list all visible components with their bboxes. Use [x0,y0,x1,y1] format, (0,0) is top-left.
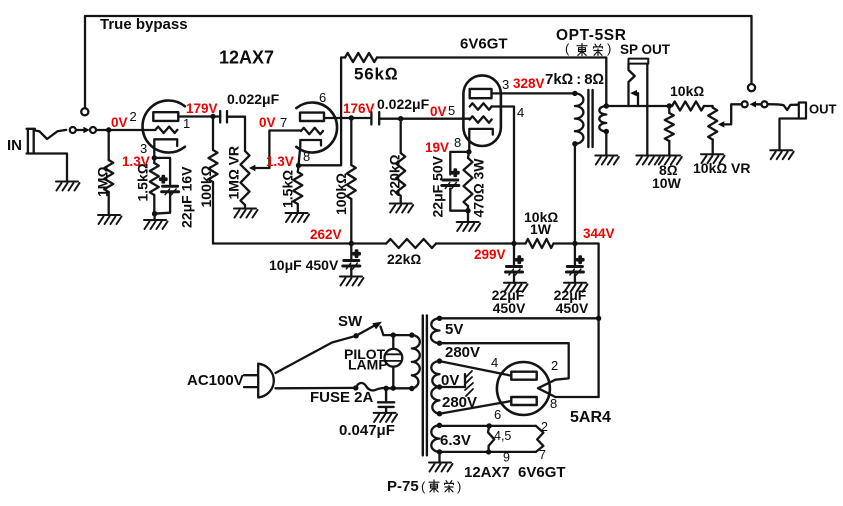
svg-text:220kΩ: 220kΩ [387,154,403,196]
node 0.047uF tap [383,386,388,391]
switch SW blade [356,325,375,336]
svg-text:4: 4 [491,355,498,370]
resistor 470Ohm 3W cathode [467,152,470,158]
V2 cathode (pin8) [469,129,493,152]
node OPT secondary top [604,103,609,108]
svg-text:7kΩ : 8Ω: 7kΩ : 8Ω [545,71,604,88]
svg-text:280V: 280V [442,394,477,411]
resistor 22kOhm dropper [386,239,436,248]
svg-text:0V: 0V [111,115,128,130]
svg-text:LAMP: LAMP [348,357,388,373]
svg-text:22μF 16V: 22μF 16V [179,166,195,228]
svg-text:470Ω 3W: 470Ω 3W [471,158,487,218]
V1b plate (pin6) [300,113,324,121]
transformer PT 6.3V winding [431,425,439,452]
tube V1a 12AX7 first triode envelope [143,101,185,153]
node 299V [511,241,516,246]
node 0V input [106,127,111,132]
svg-text:(: ( [565,41,570,56]
svg-text:6: 6 [494,407,501,422]
ground (1.5k V1b) [286,213,310,222]
resistor 220kOhm grid leak [400,119,402,153]
ground (6.3V) [429,463,453,472]
transformer OPT primary winding [575,93,584,143]
tube V3 5AR4 envelope [497,362,550,415]
svg-text:4,5: 4,5 [494,429,511,443]
tube V2 6V6GT envelope [463,75,501,146]
wire: pin8 to B+ [555,396,598,398]
node cathode bottom [152,211,157,216]
ground (IN jack) [56,182,80,191]
ground (10uF) [340,277,364,286]
node cathode V1a 1.3V [152,155,157,160]
node SW pivot [353,333,358,338]
svg-text:344V: 344V [583,226,615,241]
svg-text:19V: 19V [425,140,449,155]
svg-text:1.5kΩ: 1.5kΩ [135,163,151,201]
svg-text:5: 5 [448,103,455,118]
svg-text:FUSE 2A: FUSE 2A [310,389,374,406]
capacitor 0.022uF coupling 2 [371,112,379,125]
transformer PT HV winding 280-0-280 [431,361,439,414]
capacitor 22uF 450V filter 1 [513,244,515,283]
transformer PT core [423,316,427,456]
ground (OUT jack) [770,150,794,159]
svg-text:): ) [607,41,611,56]
svg-text:6V6GT: 6V6GT [460,36,508,53]
V2 plate (pin3) [470,89,492,98]
svg-text:2: 2 [551,358,558,373]
svg-text:0.022μF: 0.022μF [377,96,430,112]
capacitor 0.022uF coupling 1 [220,111,245,123]
svg-text:450V: 450V [493,300,526,316]
svg-text:100kΩ: 100kΩ [198,165,214,207]
wire: V1b plate to node 176V [324,117,371,119]
jack OUT body [799,103,806,119]
node: bypass switch pole left (open circle) [81,108,88,115]
node 179V [210,114,215,119]
ground (22uF 2) [564,283,588,292]
node heater tap 12AX7 top [487,423,492,428]
V1a grid (pin2) [155,127,177,133]
V3 filament pins 2-8 [538,380,555,397]
plug AC100V [244,364,274,398]
heater bus right chevron 6V6GT [536,426,544,452]
ground (10k VR) [701,154,725,163]
svg-text:179V: 179V [186,101,218,116]
svg-text:8: 8 [454,135,461,150]
svg-text:2: 2 [541,420,548,434]
svg-text:6: 6 [319,90,326,105]
svg-text:6.3V: 6.3V [440,432,471,449]
svg-text:280V: 280V [445,344,480,361]
svg-text:10kΩ: 10kΩ [670,83,704,99]
resistor 1MOhm input [108,130,110,160]
svg-text:6V6GT: 6V6GT [518,464,566,481]
svg-text:P-75: P-75 [387,478,419,495]
wiper of 1M VR to grid V1b [249,165,255,172]
svg-text:328V: 328V [513,76,545,91]
jack IN tip spring [35,130,66,139]
svg-text:IN: IN [7,137,22,154]
svg-text:10μF 450V: 10μF 450V [269,257,339,273]
svg-text:12AX7: 12AX7 [219,48,274,68]
node 176V [349,115,354,120]
wire: fuse to primary bottom [386,387,412,389]
node grid 6V6 [398,116,403,121]
heater bus pinch 12AX7 [488,426,494,452]
svg-text:10kΩ VR: 10kΩ VR [693,160,750,176]
svg-text:22kΩ: 22kΩ [387,251,421,267]
jack SP OUT switching contact arrow [637,93,639,106]
svg-text:1.3V: 1.3V [266,154,294,169]
svg-text:7: 7 [280,115,287,130]
wire: screen to 299V rail [492,107,515,244]
svg-text:+: + [576,252,584,267]
svg-text:(: ( [421,479,426,494]
resistor 1.5kOhm V1b cathode [297,166,300,173]
transformer PT primary winding [412,335,420,388]
V1b cathode (pin8) [299,140,322,166]
svg-text:1MΩ: 1MΩ [95,167,111,197]
node OPT primary top 328V [572,91,577,96]
potentiometer 1MOhm VR volume [244,117,246,151]
node primary bottom [409,386,414,391]
wire: OPT primary bottom to 344V [574,144,576,244]
transformer OPT core [588,90,592,147]
node OPT primary bottom [572,141,577,146]
svg-text:8: 8 [550,396,557,411]
svg-text:): ) [457,479,461,494]
svg-text:0.022μF: 0.022μF [227,91,280,107]
svg-text:7: 7 [539,448,546,462]
svg-text:+: + [452,165,460,180]
svg-text:SW: SW [338,313,363,330]
wire: 5V bottom to 5AR4 pin2 [440,343,569,380]
capacitor 10uF 450V filter [350,244,352,277]
svg-text:5AR4: 5AR4 [570,409,611,426]
V1a cathode (pin3) [154,139,177,158]
wire: plug bottom to fuse [276,387,356,390]
svg-text:0V: 0V [441,372,459,389]
capacitor 0.047uF line filter [378,388,394,413]
capacitor 22uF 50V cathode bypass [450,152,469,211]
svg-text:56kΩ: 56kΩ [354,65,399,84]
resistor 100kOhm V1a plate load [212,117,214,151]
svg-text:450V: 450V [556,300,589,316]
svg-text:0V: 0V [259,115,276,130]
wire: B+ rail [213,244,599,398]
wire: true-bypass top rail [85,16,752,108]
resistor 100kOhm V1b plate load [350,118,352,165]
wire: 6.3V to ground [438,452,440,463]
ground (1.5k/22u) [144,220,168,229]
wire: 0V centre tap to ground [440,374,466,387]
svg-text:22μF 50V: 22μF 50V [430,155,446,217]
ground (HV centre tap) [465,371,473,396]
heater bus top line [440,426,536,452]
svg-text:+: + [353,246,361,261]
svg-text:8: 8 [303,149,310,164]
ground (8 Ohm) [658,156,682,165]
wire: coupling to 6V6 grid [379,118,470,120]
svg-text:9: 9 [503,451,510,465]
svg-text:12AX7: 12AX7 [464,464,510,481]
jack SP OUT body [629,59,649,64]
ground (0.047uF) [374,413,398,422]
transformer OPT secondary winding [599,106,606,132]
node 344V [572,241,577,246]
svg-text:3: 3 [502,77,509,92]
node OPT secondary bottom [604,129,609,134]
switch SW2 output (circle-arrow-circle) [742,101,748,107]
lamp PILOT [392,335,394,388]
ground (220k) [390,204,414,213]
wire: OPT secondary bottom to ground [605,132,607,156]
resistor 56kOhm feedback [299,58,342,166]
jack IN [27,129,67,182]
jack SP OUT tip spring [629,64,635,105]
ground (470) [457,222,481,231]
resistor 10kOhm 1W dropper [526,239,554,248]
node cathode 19V [466,149,471,154]
svg-text:1: 1 [183,116,190,131]
svg-text:262V: 262V [310,227,342,242]
capacitor 22uF 450V filter 2 [574,244,576,283]
svg-text:2: 2 [130,109,137,124]
ground (1M) [98,215,122,224]
wire: 280V bottom to 5AR4 plate pin6 [440,401,512,414]
svg-text:+: + [160,172,168,187]
svg-text:5V: 5V [445,321,463,338]
svg-text:+: + [516,252,524,267]
svg-text:1W: 1W [530,221,552,237]
node 8 Ohm load [667,103,672,108]
node pilot lamp bottom [391,385,396,390]
resistor 10kOhm attenuator series [672,102,704,111]
ground (1M VR) [234,209,258,218]
svg-text:1.5kΩ: 1.5kΩ [280,170,296,208]
svg-text:1MΩ VR: 1MΩ VR [226,146,242,200]
node pilot lamp top [391,332,396,337]
ground (OPT secondary) [595,156,619,165]
node: bypass switch pole right (open circle) [748,84,755,91]
switch SW1 input (circle-arrow-circle) [70,127,76,133]
node cathode network bottom [465,208,470,213]
resistor 1.5kOhm V1a cathode [153,158,155,163]
V2 control grid (pin5) [470,116,492,122]
resistor 8Ohm 10W dummy load [668,106,670,113]
V1a plate (pin1) [153,112,178,121]
ground (22uF 1) [504,283,528,292]
wire: V2 plate to OPT primary [492,92,575,94]
wire: SW to transformer primary top [381,327,412,336]
wire: 280V top to 5AR4 plate pin4 [440,361,512,376]
svg-text:OUT: OUT [809,102,837,117]
wiper of 10k VR [718,121,724,127]
capacitor 22uF 16V cathode bypass [154,158,170,214]
svg-text:0V: 0V [430,104,447,119]
wire: switch to grid of V1a [96,129,155,131]
V3 plate 1 (pin4) [511,372,536,380]
wire: V1a plate to node 179V [178,115,220,117]
fuse FUSE 2A [356,383,386,390]
svg-text:4: 4 [517,105,524,120]
node 262V [349,241,354,246]
svg-text:176V: 176V [343,101,375,116]
svg-text:SP OUT: SP OUT [620,42,671,57]
wire: squiggle to OUT jack [768,104,799,110]
svg-text:AC100V: AC100V [187,372,244,389]
tube V1b 12AX7 second triode envelope [296,102,337,152]
svg-text:299V: 299V [474,247,506,262]
svg-text:10W: 10W [652,175,682,191]
wire: OUT jack sleeve to ground [780,119,799,151]
node fuse left [353,385,358,390]
svg-text:0.047μF: 0.047μF [339,422,395,439]
node primary top [409,332,414,337]
ground (SP OUT jack) [636,156,660,165]
transformer PT 5V winding [431,318,440,343]
V3 plate 2 (pin6) [511,397,536,405]
wire: output line from OPT secondary [606,106,712,108]
V2 screen grid (pin4) [470,103,492,109]
wire: plug to switch SW [276,336,357,373]
svg-text:True bypass: True bypass [100,16,188,33]
node heater tap 12AX7 bottom [486,449,491,454]
potentiometer 10kOhm VR [708,108,717,140]
V1b grid (pin7) [301,128,323,134]
wire: 5V top to B+ line [440,317,599,319]
svg-text:100kΩ: 100kΩ [333,173,349,215]
node cathode V1b 1.3V [296,163,301,168]
